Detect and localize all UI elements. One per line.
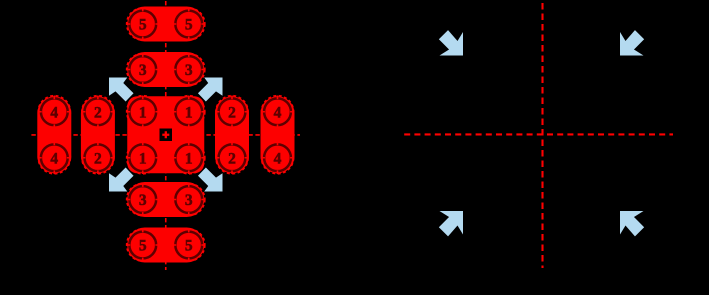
anchor black square <box>160 129 173 142</box>
pad 3 upper pill <box>127 52 204 87</box>
svg-text:1: 1 <box>185 104 193 121</box>
svg-text:2: 2 <box>228 150 236 167</box>
hole 4a <box>38 96 70 128</box>
hole 4b <box>38 142 70 174</box>
hole 3d <box>173 183 205 215</box>
hole 3b <box>173 53 205 85</box>
right crosshair horizontal dashed line <box>404 133 673 135</box>
left arrow SW <box>109 168 134 192</box>
hole 2a <box>82 96 114 128</box>
svg-text:2: 2 <box>94 150 102 167</box>
svg-text:1: 1 <box>185 150 193 167</box>
svg-text:4: 4 <box>50 150 58 167</box>
pad 4 left pill <box>37 96 71 173</box>
svg-text:1: 1 <box>139 104 147 121</box>
hole 4c <box>261 96 293 128</box>
hole 3c <box>127 183 159 215</box>
svg-text:2: 2 <box>94 104 102 121</box>
pad 1 center square pad <box>127 96 204 173</box>
right arrow into center from NW <box>439 30 463 55</box>
hole 4d <box>261 142 293 174</box>
svg-text:5: 5 <box>185 238 193 255</box>
hole 1b <box>173 96 205 128</box>
right arrow into center from SW <box>439 211 463 236</box>
left crosshair vertical dashed line <box>165 1 167 270</box>
svg-text:4: 4 <box>50 104 58 121</box>
pad 2 left pill <box>81 96 115 173</box>
hole 5b <box>173 8 205 40</box>
hole 5c <box>127 229 159 261</box>
svg-text:2: 2 <box>228 104 236 121</box>
svg-text:5: 5 <box>139 17 147 34</box>
left arrow NW <box>109 78 134 102</box>
hole 1a <box>127 96 159 128</box>
svg-text:3: 3 <box>139 192 147 209</box>
svg-text:3: 3 <box>185 62 193 79</box>
svg-text:5: 5 <box>139 238 147 255</box>
right arrow into center from SE <box>620 211 644 236</box>
svg-text:3: 3 <box>139 62 147 79</box>
svg-text:4: 4 <box>274 104 282 121</box>
svg-text:1: 1 <box>139 150 147 167</box>
svg-text:4: 4 <box>274 150 282 167</box>
hole 5d <box>173 229 205 261</box>
hole 2d <box>216 142 248 174</box>
left crosshair horizontal dashed line <box>31 134 300 136</box>
left arrow NE <box>198 78 223 102</box>
right arrow into center from NE <box>620 30 644 55</box>
left arrow SE <box>198 168 223 192</box>
pad 3 lower pill <box>127 182 204 217</box>
hole 1c <box>127 142 159 174</box>
hole 2c <box>216 96 248 128</box>
pad 2 right pill <box>215 96 249 173</box>
pad 4 right pill <box>261 96 295 173</box>
right crosshair vertical dashed line <box>541 3 543 268</box>
pad 5 bottom pill <box>127 228 204 263</box>
hole 5a <box>127 8 159 40</box>
numbers <box>50 17 281 255</box>
svg-text:5: 5 <box>185 17 193 34</box>
hole 3a <box>127 53 159 85</box>
svg-text:3: 3 <box>185 192 193 209</box>
hole 2b <box>82 142 114 174</box>
pad 5 top pill <box>127 7 204 42</box>
anchor red plus <box>162 131 169 138</box>
hole 1d <box>173 142 205 174</box>
